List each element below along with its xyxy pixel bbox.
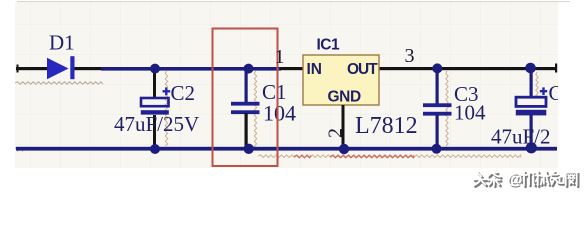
junction bottom C4	[526, 142, 537, 153]
red squiggle segment left	[294, 155, 311, 158]
red squiggle under bottom wire near GND	[330, 155, 414, 158]
capacitor C4 (polarized, clipped at right)	[530, 69, 533, 97]
junction bottom C3	[432, 144, 442, 154]
wire: black lead right of D1	[74, 67, 102, 70]
svg-text:IC1: IC1	[317, 37, 341, 54]
junction top C1	[244, 64, 254, 74]
capacitor C1	[245, 70, 248, 103]
svg-text:104: 104	[454, 101, 486, 125]
junction top C4	[525, 63, 536, 74]
junction top C2	[150, 64, 160, 74]
wire: top net navy segment D1 to IC pin1	[101, 67, 281, 71]
svg-text:OUT: OUT	[347, 61, 378, 78]
highlight red rectangle	[213, 29, 278, 167]
vertical squiggle at C4	[536, 72, 538, 96]
svg-text:@: @	[507, 171, 522, 188]
junction bottom C2	[150, 144, 160, 154]
vertical squiggle at C2	[165, 71, 167, 146]
junction bottom GND	[339, 144, 349, 154]
white mask right of sheet	[558, 0, 588, 192]
watermark: toutiao @jixiezhiwang (drawn glyphs)	[474, 171, 579, 190]
vertical squiggle at C3	[446, 71, 448, 146]
svg-text:C2: C2	[171, 81, 196, 105]
svg-text:47uF/2: 47uF/2	[491, 125, 551, 149]
svg-text:104: 104	[263, 101, 296, 126]
wire: bottom net	[16, 147, 557, 151]
junction bottom C1	[244, 144, 254, 154]
squiggle under bottom wire	[258, 155, 521, 158]
wire: top net, black lead left of D1	[16, 67, 47, 70]
capacitor C3	[436, 70, 439, 104]
squiggle at left end of bottom wire	[13, 148, 24, 151]
IC pin 3 stub and black net to right edge	[379, 67, 557, 70]
svg-text:L7812: L7812	[355, 113, 418, 139]
plus sign of C4	[540, 87, 547, 95]
plus sign of C2	[163, 87, 171, 95]
svg-text:D1: D1	[49, 31, 75, 55]
svg-text:IN: IN	[307, 61, 323, 78]
svg-text:47uF/25V: 47uF/25V	[114, 112, 199, 136]
IC pin 2 (GND) wire	[342, 105, 345, 149]
op IC1 regulator box	[303, 55, 379, 105]
compile-mark squiggle under D1 wire	[15, 82, 103, 84]
capacitor C2 (polarized)	[153, 70, 156, 99]
schematic sheet background	[15, 2, 558, 168]
svg-text:3: 3	[405, 45, 415, 67]
diode D1	[47, 58, 69, 79]
junction top C3	[432, 63, 442, 73]
vertical squiggle at C1	[254, 71, 256, 150]
IC pin 1 stub	[280, 67, 303, 70]
svg-text:1: 1	[275, 46, 285, 68]
svg-text:GND: GND	[328, 89, 361, 106]
top crop line	[17, 1, 570, 2]
